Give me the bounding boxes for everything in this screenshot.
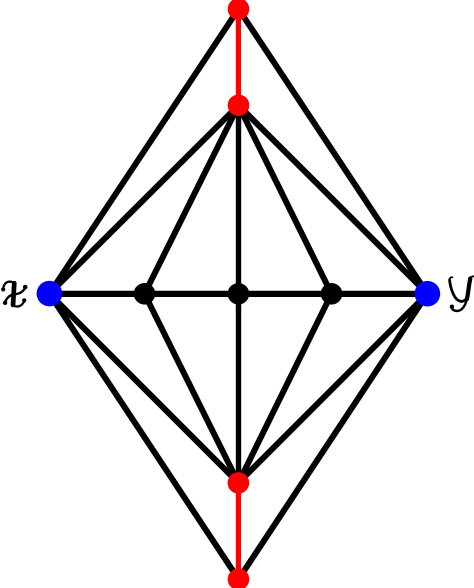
wire edge R4-y [239, 294, 428, 580]
wire edge R2-m1 [145, 105, 239, 293]
wire edge R2-x [49, 105, 238, 293]
node x left blue vertex [37, 281, 63, 307]
wire red edge R1-R2 [236, 9, 241, 105]
label x [1, 282, 27, 307]
node m3 right black vertex [321, 283, 343, 305]
wire edge R2-m3 [239, 105, 332, 293]
node R4 bottom red vertex [228, 568, 250, 588]
node m1 left black vertex [134, 283, 156, 305]
node m2 center black vertex [228, 283, 250, 305]
wire edge R1-y [239, 9, 428, 294]
node R2 upper-middle red vertex [228, 95, 250, 117]
node R1 top red vertex [228, 0, 250, 20]
wire red edge R3-R4 [236, 483, 241, 579]
wire edge R3-m3 [238, 294, 331, 483]
wire vertical edge R2-m2-R3 [236, 105, 241, 483]
wire edge R4-x [49, 294, 238, 580]
wire edge R2-y [239, 105, 428, 293]
node R3 lower-middle red vertex [228, 472, 250, 494]
label y [449, 276, 474, 311]
node y right blue vertex [415, 281, 441, 307]
wire edge R3-y [238, 294, 427, 483]
wire edge R3-m1 [145, 294, 239, 483]
wire horizontal edge x-m1-m2-m3-y [49, 291, 427, 297]
wire edge R3-x [49, 294, 238, 483]
wire edge R1-x [49, 9, 238, 294]
